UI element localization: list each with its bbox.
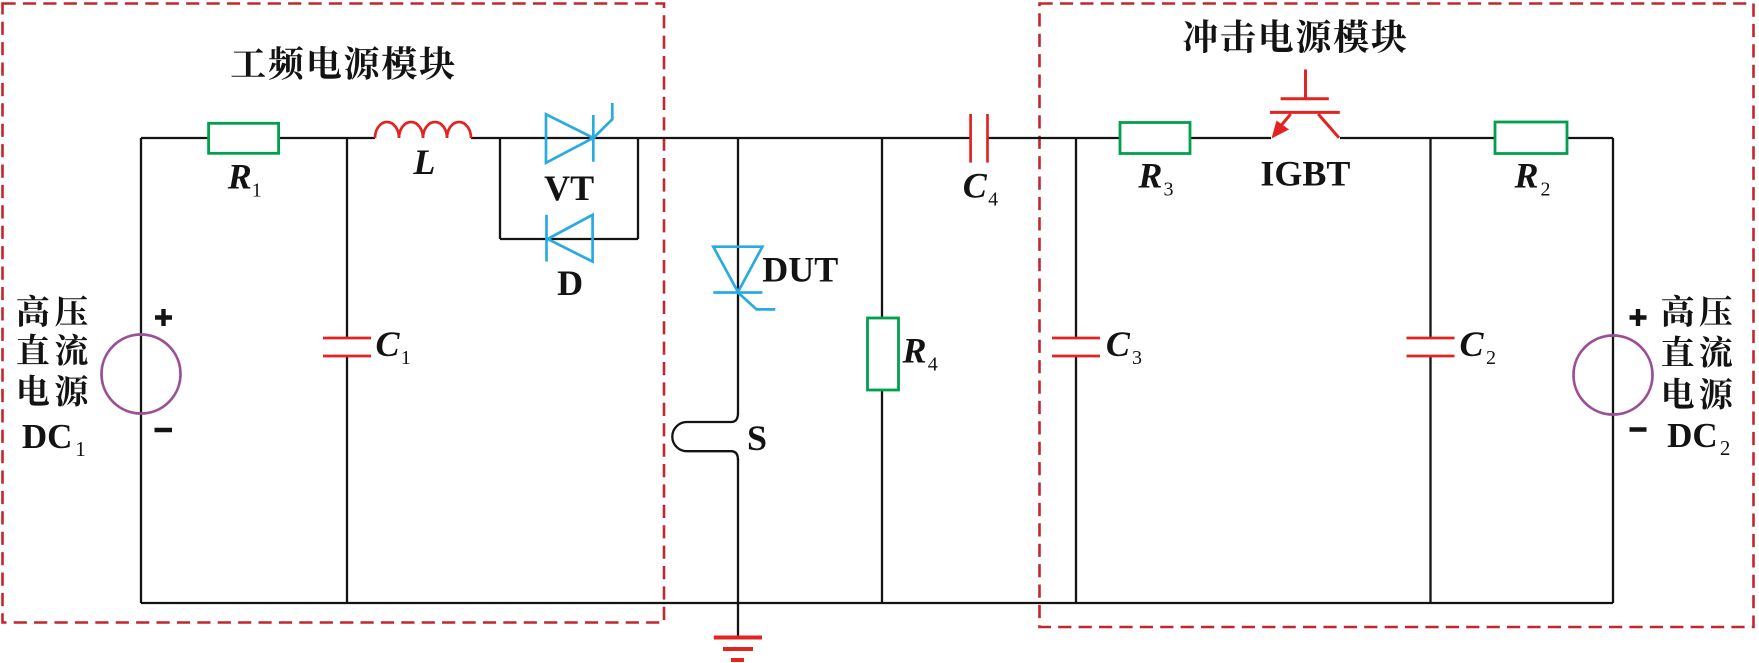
label module title 工频电源模块: [231, 48, 265, 76]
svg-text:4: 4: [928, 354, 938, 376]
wire: top bus, R1 to L (through node of C1 branch): [279, 137, 376, 139]
wire: C1 branch lower: [346, 356, 348, 603]
source DC1 (voltage source circle): [102, 335, 181, 414]
svg-text:C: C: [963, 165, 988, 205]
module box: right dashed frame (冲击电源模块): [1040, 4, 1754, 628]
wire: C3 branch lower: [1075, 356, 1077, 603]
resistor R4: [868, 318, 899, 390]
svg-text:2: 2: [1720, 436, 1731, 460]
transistor IGBT: [1270, 70, 1340, 139]
svg-text:1: 1: [252, 179, 262, 201]
source DC2 polarity -: [1630, 427, 1647, 431]
wire: C3 branch upper: [1075, 138, 1077, 338]
wire: VT/D loop bottom horizontal: [500, 238, 638, 240]
svg-text:3: 3: [1132, 347, 1142, 369]
wire: ground stem: [737, 603, 739, 636]
svg-text:3: 3: [1164, 179, 1174, 201]
wire: top bus, DC1 to R1: [141, 137, 209, 139]
switch S: [672, 413, 738, 460]
svg-text:DC: DC: [1667, 416, 1718, 455]
capacitor C4: [971, 114, 988, 163]
label module title 冲击电源模块: [1184, 19, 1218, 53]
svg-text:4: 4: [988, 188, 998, 210]
wire: DUT branch lower (switch S to bottom bus): [737, 459, 739, 603]
capacitor C3: [1052, 338, 1100, 356]
wire: top bus, R3 to IGBT collector: [1190, 137, 1271, 139]
wire: top bus, R2 to DC2: [1567, 137, 1613, 139]
source DC1 polarity +: [155, 309, 172, 326]
wire: left vertical (DC1 branch): [140, 138, 142, 603]
wire: C1 branch upper: [346, 138, 348, 338]
svg-text:IGBT: IGBT: [1260, 153, 1350, 193]
wire: top bus, IGBT emitter to R2: [1340, 137, 1495, 139]
svg-text:VT: VT: [544, 168, 594, 208]
svg-text:C: C: [1460, 324, 1485, 364]
svg-text:DUT: DUT: [762, 250, 838, 290]
wire: R4 branch lower: [881, 390, 883, 603]
source DC2 (voltage source circle): [1574, 336, 1653, 415]
resistor R3: [1120, 123, 1190, 154]
capacitor C2: [1407, 338, 1455, 356]
thyristor DUT: [713, 247, 775, 310]
svg-text:D: D: [557, 263, 583, 303]
svg-text:2: 2: [1486, 347, 1496, 369]
capacitor C1: [323, 338, 371, 356]
wire: C2 branch lower: [1429, 356, 1431, 603]
resistor R2: [1495, 122, 1567, 154]
resistor R1: [209, 123, 279, 153]
wire: R4 branch upper: [881, 138, 883, 318]
diode D: [547, 215, 593, 262]
wire: VT/D loop left vertical: [499, 138, 501, 239]
svg-text:L: L: [412, 142, 435, 182]
ground: [714, 638, 762, 661]
source DC1 polarity -: [155, 428, 173, 432]
wire: bottom bus: [141, 602, 1613, 604]
svg-text:1: 1: [401, 347, 411, 369]
svg-text:R: R: [227, 156, 252, 196]
svg-text:C: C: [1106, 324, 1131, 364]
svg-text:1: 1: [75, 437, 86, 461]
wire: C2 branch upper: [1429, 138, 1431, 338]
svg-text:R: R: [902, 331, 927, 371]
wire: top bus, L to C4 (through VT node): [471, 137, 971, 139]
label 高压直流电源 DC1 (left source): [17, 295, 48, 327]
svg-text:2: 2: [1541, 179, 1551, 201]
wire: VT/D loop right vertical: [637, 138, 639, 239]
inductor L: [375, 122, 471, 138]
wire: DUT branch upper (top bus to switch S): [737, 138, 739, 414]
wire: right vertical (DC2 branch): [1612, 138, 1614, 603]
module box: left dashed frame (工频电源模块): [3, 4, 665, 623]
thyristor VT: [546, 103, 612, 163]
svg-text:R: R: [1137, 156, 1162, 196]
svg-text:S: S: [747, 418, 767, 458]
label 高压直流电源 DC2 (right source): [1662, 295, 1693, 327]
svg-text:DC: DC: [22, 417, 73, 456]
svg-text:R: R: [1514, 156, 1539, 196]
source DC2 polarity +: [1630, 309, 1647, 326]
svg-text:C: C: [376, 324, 401, 364]
wire: top bus, C4 to R3: [987, 137, 1120, 139]
